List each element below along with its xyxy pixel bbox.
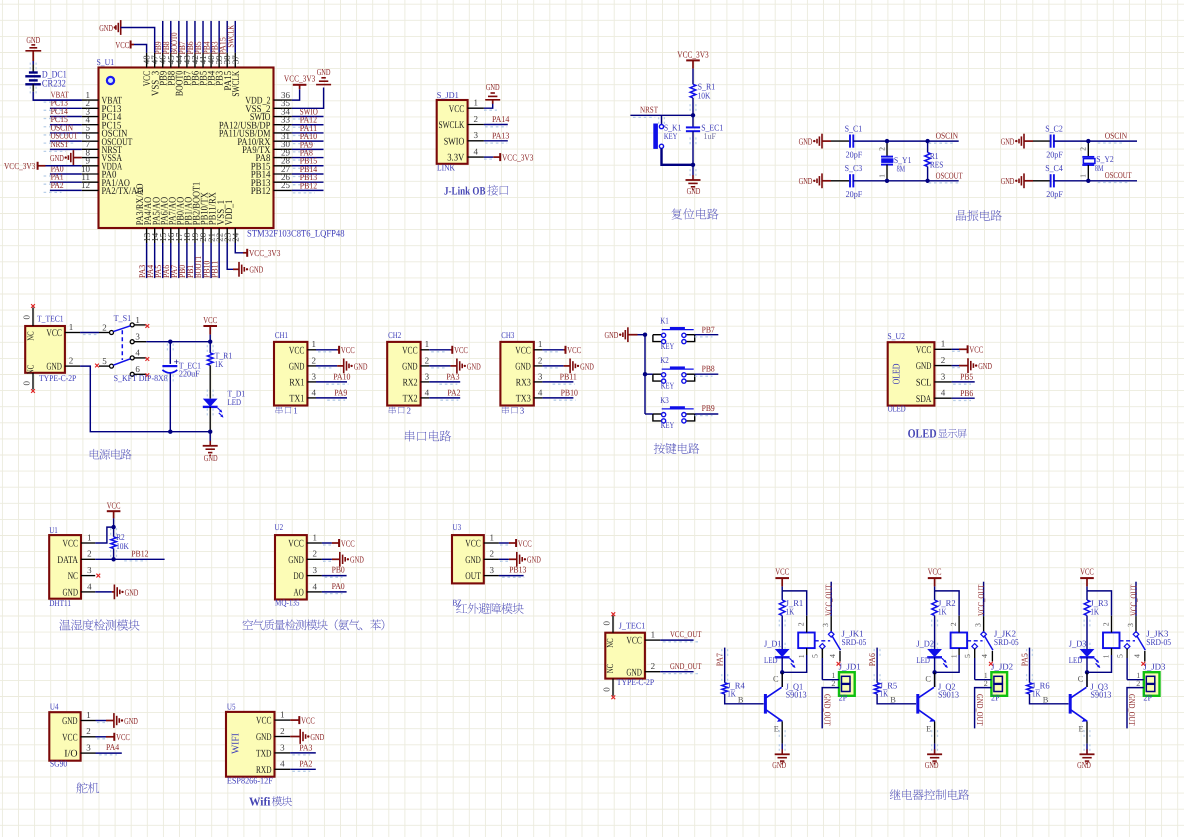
svg-text:GND: GND <box>99 23 113 33</box>
svg-text:GND: GND <box>580 361 594 371</box>
svg-text:S_KFT DIP-8X8: S_KFT DIP-8X8 <box>114 373 169 383</box>
svg-text:C: C <box>1078 674 1084 683</box>
svg-text:SWIO: SWIO <box>444 136 465 147</box>
svg-text:4: 4 <box>980 654 989 658</box>
svg-text:S_JD1: S_JD1 <box>437 90 459 100</box>
svg-text:3: 3 <box>87 565 92 575</box>
svg-text:GND_OUT: GND_OUT <box>670 661 702 671</box>
svg-text:J-Link OB: J-Link OB <box>444 186 486 198</box>
svg-text:NRST: NRST <box>640 105 658 115</box>
svg-text:PA0: PA0 <box>332 581 346 591</box>
svg-text:VCC: VCC <box>46 328 62 339</box>
svg-text:1: 1 <box>490 532 495 542</box>
svg-text:0: 0 <box>601 687 611 692</box>
svg-text:PB11: PB11 <box>560 372 577 382</box>
svg-text:1K: 1K <box>727 689 736 699</box>
svg-text:3: 3 <box>311 371 316 381</box>
svg-text:LED: LED <box>764 655 778 665</box>
svg-text:PA2: PA2 <box>299 759 312 769</box>
svg-text:PB10: PB10 <box>561 388 579 398</box>
svg-text:VCC: VCC <box>301 716 315 726</box>
svg-text:GND: GND <box>204 453 218 463</box>
svg-text:DO: DO <box>294 571 304 582</box>
svg-text:PA3: PA3 <box>299 742 313 752</box>
svg-text:RXD: RXD <box>256 765 272 776</box>
svg-text:4: 4 <box>538 387 543 397</box>
svg-text:NC: NC <box>26 365 36 374</box>
svg-text:C: C <box>773 674 779 683</box>
svg-text:4: 4 <box>135 348 140 358</box>
svg-text:TYPE-C-2P: TYPE-C-2P <box>39 373 76 383</box>
svg-text:1K: 1K <box>1032 689 1041 699</box>
svg-text:VCC_3V3: VCC_3V3 <box>284 74 316 84</box>
svg-text:SRD-05: SRD-05 <box>842 637 867 647</box>
svg-text:0: 0 <box>22 381 32 386</box>
svg-text:PB12: PB12 <box>251 186 271 197</box>
svg-text:S_C2: S_C2 <box>1045 123 1063 133</box>
svg-text:GND: GND <box>916 361 932 372</box>
svg-text:GND: GND <box>289 362 305 373</box>
svg-text:2: 2 <box>1136 679 1140 688</box>
svg-text:VCC: VCC <box>454 345 468 355</box>
svg-text:VCC: VCC <box>203 315 217 325</box>
svg-text:PB11: PB11 <box>209 261 219 278</box>
svg-text:VCC_OUT: VCC_OUT <box>824 584 834 616</box>
svg-text:8M: 8M <box>1095 163 1104 173</box>
svg-text:GND: GND <box>799 137 813 147</box>
svg-text:PB7: PB7 <box>702 324 716 334</box>
svg-text:KEY: KEY <box>661 341 675 351</box>
svg-text:SRD-05: SRD-05 <box>994 637 1019 647</box>
svg-text:DATA: DATA <box>57 555 78 566</box>
svg-text:U4: U4 <box>50 701 59 711</box>
svg-text:RX2: RX2 <box>403 378 418 389</box>
svg-text:1: 1 <box>86 710 91 720</box>
svg-text:U1: U1 <box>49 525 58 535</box>
svg-text:2: 2 <box>490 549 495 559</box>
svg-text:J_TEC1: J_TEC1 <box>619 621 646 631</box>
svg-text:PA7: PA7 <box>715 653 725 667</box>
svg-text:KEY: KEY <box>661 420 675 430</box>
svg-text:GND: GND <box>62 716 78 727</box>
svg-text:PA3: PA3 <box>446 372 460 382</box>
svg-text:2: 2 <box>1101 622 1110 626</box>
svg-text:4: 4 <box>828 654 837 658</box>
svg-text:GND: GND <box>256 732 272 743</box>
svg-text:VCC: VCC <box>256 716 272 727</box>
svg-text:GND: GND <box>1077 760 1091 770</box>
svg-text:T_TEC1: T_TEC1 <box>37 314 64 324</box>
svg-text:3.3V: 3.3V <box>447 153 465 164</box>
svg-text:J_JD2: J_JD2 <box>991 661 1013 671</box>
svg-text:1: 1 <box>651 630 656 640</box>
svg-text:PA6: PA6 <box>867 653 877 667</box>
svg-text:OUT: OUT <box>465 571 481 582</box>
svg-text:PA2: PA2 <box>447 388 460 398</box>
svg-text:PB6: PB6 <box>960 388 974 398</box>
svg-text:C: C <box>925 674 931 683</box>
svg-text:GND: GND <box>317 67 331 77</box>
svg-text:PA10: PA10 <box>333 372 351 382</box>
svg-text:2: 2 <box>984 679 988 688</box>
svg-text:1: 1 <box>87 532 92 542</box>
svg-text:LINK: LINK <box>437 162 455 172</box>
svg-text:3: 3 <box>425 371 430 381</box>
svg-text:0: 0 <box>601 620 611 625</box>
svg-text:GND: GND <box>486 82 500 92</box>
svg-text:VCC: VCC <box>115 40 129 50</box>
svg-text:VCC_OUT: VCC_OUT <box>670 629 702 639</box>
svg-text:CH3: CH3 <box>501 330 515 340</box>
svg-text:GND_OUT: GND_OUT <box>1127 694 1137 726</box>
svg-text:2P: 2P <box>1143 693 1152 703</box>
svg-text:PB5: PB5 <box>960 372 974 382</box>
svg-text:B: B <box>890 695 896 704</box>
svg-text:GND: GND <box>978 361 992 371</box>
svg-text:GND: GND <box>1001 137 1015 147</box>
svg-text:24: 24 <box>230 232 240 242</box>
svg-text:TX3: TX3 <box>516 394 531 405</box>
svg-text:CR232: CR232 <box>42 78 66 89</box>
svg-text:GND: GND <box>799 176 813 186</box>
svg-text:20pF: 20pF <box>1046 189 1063 199</box>
svg-text:1K: 1K <box>215 359 224 369</box>
svg-text:2: 2 <box>87 549 92 559</box>
svg-text:B: B <box>738 695 744 704</box>
svg-text:J_JD3: J_JD3 <box>1143 661 1166 671</box>
svg-text:K3: K3 <box>660 395 669 405</box>
svg-text:PA2: PA2 <box>51 180 64 190</box>
svg-text:PB0: PB0 <box>332 565 346 575</box>
svg-text:VCC_3V3: VCC_3V3 <box>502 153 534 163</box>
svg-text:1: 1 <box>797 654 806 658</box>
svg-text:OSCOUT: OSCOUT <box>936 170 963 180</box>
svg-text:T_S1: T_S1 <box>114 313 132 323</box>
svg-text:K2: K2 <box>660 355 669 365</box>
svg-text:GND: GND <box>402 362 418 373</box>
svg-text:2P: 2P <box>839 693 848 703</box>
svg-text:1K: 1K <box>880 689 889 699</box>
svg-text:4: 4 <box>1133 654 1142 658</box>
svg-text:2: 2 <box>280 726 285 736</box>
svg-text:1: 1 <box>949 654 958 658</box>
svg-text:2: 2 <box>313 549 318 559</box>
svg-text:VCC: VCC <box>288 539 304 550</box>
svg-text:SCL: SCL <box>916 378 932 389</box>
svg-text:2: 2 <box>538 355 543 365</box>
svg-text:3: 3 <box>973 623 982 627</box>
svg-text:GND_OUT: GND_OUT <box>822 694 832 726</box>
svg-text:3: 3 <box>821 623 830 627</box>
svg-text:GND: GND <box>354 361 368 371</box>
svg-text:PB9: PB9 <box>702 403 716 413</box>
svg-text:PA9: PA9 <box>334 388 348 398</box>
svg-text:1K: 1K <box>1090 607 1099 617</box>
svg-text:GND: GND <box>310 732 324 742</box>
svg-text:VCC_3V3: VCC_3V3 <box>249 248 281 258</box>
svg-text:SG90: SG90 <box>50 759 68 769</box>
svg-text:25: 25 <box>281 180 291 190</box>
svg-text:U2: U2 <box>275 522 284 532</box>
svg-text:KEY: KEY <box>664 131 678 141</box>
svg-text:J_D2: J_D2 <box>916 638 934 648</box>
svg-text:RES: RES <box>930 159 944 169</box>
svg-text:VCC_3V3: VCC_3V3 <box>677 50 709 60</box>
svg-text:4: 4 <box>941 388 946 398</box>
svg-text:GND: GND <box>63 588 79 599</box>
svg-text:VCC: VCC <box>402 345 418 356</box>
svg-text:3: 3 <box>538 371 543 381</box>
svg-text:GND: GND <box>626 667 642 678</box>
svg-text:STM32F103C8T6_LQFP48: STM32F103C8T6_LQFP48 <box>247 229 345 240</box>
svg-text:0: 0 <box>22 315 32 320</box>
svg-text:SDA: SDA <box>916 394 932 405</box>
svg-text:VCC: VCC <box>626 636 642 647</box>
svg-text:2: 2 <box>102 323 107 333</box>
svg-text:SWCLK: SWCLK <box>225 25 235 48</box>
svg-text:RX1: RX1 <box>289 378 304 389</box>
svg-text:1: 1 <box>474 98 479 108</box>
svg-text:S_U2: S_U2 <box>887 331 905 341</box>
svg-text:3: 3 <box>520 405 525 415</box>
svg-text:VCC: VCC <box>465 539 481 550</box>
svg-text:OLED: OLED <box>908 426 937 440</box>
svg-text:3: 3 <box>86 743 91 753</box>
svg-text:OSCIN: OSCIN <box>936 131 959 141</box>
svg-text:S_C4: S_C4 <box>1045 163 1063 173</box>
svg-text:E: E <box>926 724 931 733</box>
svg-text:GND: GND <box>26 35 40 45</box>
svg-text:8M: 8M <box>897 163 906 173</box>
svg-text:1: 1 <box>1102 654 1111 658</box>
svg-text:VCC: VCC <box>1080 566 1094 576</box>
svg-text:1: 1 <box>293 405 298 415</box>
svg-text:3: 3 <box>941 371 946 381</box>
svg-text:1: 1 <box>69 322 74 332</box>
svg-text:2: 2 <box>797 622 806 626</box>
svg-text:20pF: 20pF <box>846 149 863 159</box>
svg-text:PB12: PB12 <box>131 548 148 558</box>
svg-text:3: 3 <box>280 742 285 752</box>
svg-text:1: 1 <box>311 339 316 349</box>
svg-text:PA14: PA14 <box>492 114 510 124</box>
svg-text:PB8: PB8 <box>702 364 716 374</box>
svg-text:5: 5 <box>102 356 107 366</box>
svg-text:VCC: VCC <box>63 539 79 550</box>
svg-text:2: 2 <box>831 679 835 688</box>
svg-text:VCC: VCC <box>515 345 531 356</box>
svg-text:NC: NC <box>606 664 616 673</box>
svg-text:3: 3 <box>313 565 318 575</box>
svg-text:4: 4 <box>425 387 430 397</box>
svg-text:5: 5 <box>963 654 972 658</box>
svg-text:12: 12 <box>81 180 90 190</box>
svg-text:CH2: CH2 <box>388 330 401 340</box>
svg-text:2P: 2P <box>991 693 1000 703</box>
svg-text:3: 3 <box>1126 623 1135 627</box>
svg-text:Wifi: Wifi <box>249 794 271 808</box>
svg-text:ESP8266-12F: ESP8266-12F <box>227 776 273 786</box>
svg-text:GND: GND <box>50 153 64 163</box>
svg-text:SWCLK: SWCLK <box>439 120 465 131</box>
svg-text:1: 1 <box>941 339 946 349</box>
svg-text:I/O: I/O <box>64 749 77 760</box>
svg-text:GND: GND <box>249 265 263 275</box>
svg-text:4: 4 <box>87 581 92 591</box>
svg-text:1: 1 <box>280 710 285 720</box>
svg-text:S9013: S9013 <box>786 690 808 700</box>
svg-text:GND: GND <box>288 555 304 566</box>
svg-text:KEY: KEY <box>661 380 675 390</box>
svg-text:2: 2 <box>69 356 74 366</box>
svg-text:VCC_3V3: VCC_3V3 <box>4 161 36 171</box>
svg-text:PB12: PB12 <box>300 180 317 190</box>
svg-text:20pF: 20pF <box>1046 149 1063 159</box>
svg-text:5: 5 <box>811 654 820 658</box>
svg-text:2: 2 <box>474 114 479 124</box>
svg-text:MQ-135: MQ-135 <box>275 598 300 608</box>
svg-text:37: 37 <box>230 55 240 65</box>
svg-text:1: 1 <box>877 174 886 178</box>
svg-text:1: 1 <box>538 339 543 349</box>
svg-text:GND: GND <box>925 760 939 770</box>
svg-text:S_C1: S_C1 <box>845 123 863 133</box>
svg-text:NC: NC <box>68 571 78 582</box>
svg-text:1uF: 1uF <box>704 131 716 141</box>
svg-text:LED: LED <box>1069 655 1083 665</box>
svg-text:VCC: VCC <box>449 104 465 115</box>
svg-text:1: 1 <box>425 339 430 349</box>
svg-text:PA4: PA4 <box>106 742 120 752</box>
svg-text:WIFI: WIFI <box>230 733 241 754</box>
svg-text:VCC: VCC <box>341 345 355 355</box>
svg-text:5: 5 <box>1115 654 1124 658</box>
svg-text:TXD: TXD <box>256 749 272 760</box>
svg-text:GND: GND <box>124 716 138 726</box>
svg-text:3: 3 <box>135 331 140 341</box>
svg-text:10K: 10K <box>116 541 129 551</box>
svg-text:2: 2 <box>877 147 886 151</box>
svg-text:4: 4 <box>313 581 318 591</box>
svg-text:OLED: OLED <box>888 404 906 414</box>
svg-text:GND: GND <box>350 555 364 565</box>
svg-text:2: 2 <box>86 726 91 736</box>
svg-text:S_U1: S_U1 <box>97 57 115 67</box>
svg-text:2: 2 <box>949 622 958 626</box>
svg-text:VCC: VCC <box>518 538 532 548</box>
svg-text:TX2: TX2 <box>403 394 418 405</box>
svg-text:S9013: S9013 <box>938 690 960 700</box>
svg-text:2: 2 <box>311 355 316 365</box>
svg-text:VDD_1: VDD_1 <box>224 200 235 225</box>
svg-text:J_D1: J_D1 <box>764 638 782 648</box>
svg-text:CH1: CH1 <box>275 330 288 340</box>
svg-text:NC: NC <box>26 331 36 340</box>
svg-text:3: 3 <box>474 130 479 140</box>
svg-text:K1: K1 <box>660 316 669 326</box>
svg-text:OLED: OLED <box>892 363 903 384</box>
svg-text:OSCOUT: OSCOUT <box>1105 170 1132 180</box>
svg-text:PB13: PB13 <box>509 565 527 575</box>
svg-text:TX1: TX1 <box>289 394 304 405</box>
svg-text:VCC: VCC <box>928 566 942 576</box>
svg-text:GND: GND <box>772 760 786 770</box>
svg-text:GND: GND <box>467 361 481 371</box>
svg-text:1: 1 <box>135 315 140 325</box>
svg-text:VCC: VCC <box>341 538 355 548</box>
svg-text:220uF: 220uF <box>179 369 200 379</box>
svg-text:VCC: VCC <box>62 732 78 743</box>
svg-text:E: E <box>1079 724 1084 733</box>
svg-text:4: 4 <box>474 147 479 157</box>
svg-text:3: 3 <box>490 565 495 575</box>
svg-text:S_C3: S_C3 <box>845 163 863 173</box>
svg-text:VCC: VCC <box>567 345 581 355</box>
svg-text:OSCIN: OSCIN <box>1105 130 1128 140</box>
svg-text:VCC: VCC <box>107 501 121 511</box>
svg-text:GND: GND <box>527 555 541 565</box>
svg-text:GND: GND <box>1001 176 1015 186</box>
svg-text:J_D3: J_D3 <box>1069 638 1087 648</box>
svg-text:2: 2 <box>1079 147 1088 151</box>
svg-text:DHT11: DHT11 <box>49 598 71 608</box>
svg-text:GND: GND <box>605 330 619 340</box>
svg-text:1K: 1K <box>786 607 795 617</box>
svg-text:2: 2 <box>651 661 656 671</box>
svg-text:VCC: VCC <box>116 732 130 742</box>
svg-text:U5: U5 <box>227 701 236 711</box>
svg-text:2: 2 <box>941 355 946 365</box>
svg-text:4: 4 <box>311 387 316 397</box>
svg-text:B: B <box>1043 695 1049 704</box>
svg-text:10K: 10K <box>698 91 711 101</box>
svg-text:VCC_OUT: VCC_OUT <box>976 584 986 616</box>
svg-text:LED: LED <box>228 397 242 407</box>
svg-text:LED: LED <box>916 655 930 665</box>
svg-text:4: 4 <box>280 759 285 769</box>
svg-text:NRST: NRST <box>51 139 69 149</box>
svg-text:U3: U3 <box>453 522 462 532</box>
svg-text:SRD-05: SRD-05 <box>1146 637 1171 647</box>
svg-text:E: E <box>774 724 779 733</box>
svg-text:1: 1 <box>313 532 318 542</box>
svg-text:GND_OUT: GND_OUT <box>975 694 985 726</box>
svg-text:VCC: VCC <box>289 345 305 356</box>
svg-text:2: 2 <box>407 405 412 415</box>
svg-text:GND: GND <box>515 362 531 373</box>
svg-text:1: 1 <box>1079 174 1088 178</box>
svg-text:VCC: VCC <box>775 566 789 576</box>
svg-text:VCC: VCC <box>969 345 983 355</box>
svg-text:20pF: 20pF <box>846 189 863 199</box>
svg-text:GND: GND <box>465 555 481 566</box>
svg-text:J_JD1: J_JD1 <box>839 661 861 671</box>
svg-text:PA13: PA13 <box>492 131 510 141</box>
svg-text:AO: AO <box>294 588 304 599</box>
svg-text:GND: GND <box>125 587 139 597</box>
svg-text:2: 2 <box>425 355 430 365</box>
svg-text:RX3: RX3 <box>516 378 531 389</box>
svg-text:1K: 1K <box>938 607 947 617</box>
svg-text:S9013: S9013 <box>1090 690 1112 700</box>
svg-text:SWCLK: SWCLK <box>231 70 242 96</box>
svg-text:VCC_OUT: VCC_OUT <box>1128 584 1138 616</box>
svg-text:NC: NC <box>606 638 616 647</box>
svg-text:GND: GND <box>687 186 701 196</box>
svg-text:VCC: VCC <box>916 345 932 356</box>
svg-text:GND: GND <box>46 362 62 373</box>
svg-text:PA5: PA5 <box>1020 653 1030 667</box>
